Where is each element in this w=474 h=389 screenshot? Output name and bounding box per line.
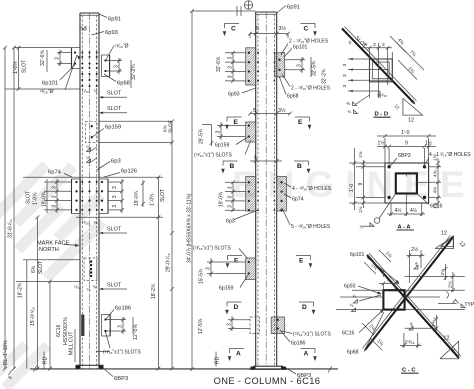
dimension 19'-0 3/4 right rotated bbox=[142, 180, 144, 207]
svg-text:3¹¹⁄₁₆: 3¹¹⁄₁₆ bbox=[377, 93, 387, 99]
dimension 32'-2 3/4 rotated right bbox=[130, 60, 132, 88]
svg-text:C: C bbox=[231, 26, 236, 33]
dimension 3 at 6p186 bbox=[106, 319, 126, 321]
svg-text:⅜: ⅜ bbox=[8, 375, 12, 380]
svg-text:6p186: 6p186 bbox=[115, 306, 131, 312]
weld symbol at column top bbox=[82, 27, 86, 31]
svg-text:3: 3 bbox=[228, 205, 234, 208]
svg-text:(¹³⁄₁₆"x1") SLOTS: (¹³⁄₁₆"x1") SLOTS bbox=[193, 246, 231, 252]
svg-text:4⅝: 4⅝ bbox=[433, 186, 439, 194]
label 6p3 column 2 bbox=[234, 210, 258, 220]
svg-text:6p3: 6p3 bbox=[226, 219, 235, 225]
base plate column 1 bbox=[76, 365, 81, 368]
label 6BP3 left with leader bbox=[103, 368, 113, 377]
label 6p186 with leader bbox=[106, 310, 115, 320]
label 4-1 3/16 holes detail A-A bbox=[424, 158, 430, 166]
svg-text:19'-0¾: 19'-0¾ bbox=[42, 191, 48, 207]
svg-text:3: 3 bbox=[118, 325, 124, 328]
label 6p3 with leader bbox=[97, 162, 110, 171]
svg-text:TYP: TYP bbox=[465, 302, 474, 308]
svg-text:6p186: 6p186 bbox=[291, 341, 306, 347]
detail C-C extension lines left bbox=[352, 289, 383, 291]
svg-text:9: 9 bbox=[358, 183, 364, 186]
plate right at C level hatched bbox=[275, 53, 285, 77]
slots note D level col2 bbox=[282, 331, 292, 334]
detail D-D slope triangle bbox=[403, 98, 423, 115]
detail D-D inner square bbox=[373, 62, 390, 79]
label 6BP3 col2 with leader bbox=[286, 368, 296, 374]
svg-text:⅛: ⅛ bbox=[87, 287, 91, 292]
svg-text:SLOT: SLOT bbox=[160, 189, 166, 202]
svg-text:12: 12 bbox=[451, 347, 456, 353]
hidden plate lower E level bbox=[84, 258, 97, 281]
svg-text:6p68: 6p68 bbox=[287, 94, 299, 100]
dimensions left of B plate col2 bbox=[225, 181, 246, 183]
label 6p74 with leader bbox=[64, 174, 72, 178]
dimension 32'-5 3/4 rotated right bbox=[310, 57, 312, 77]
dim 2 1/8 right vertical 2 bbox=[452, 272, 454, 292]
svg-text:(¹³⁄₁₆"x1") SLOTS: (¹³⁄₁₆"x1") SLOTS bbox=[194, 153, 232, 159]
svg-text:SLOT: SLOT bbox=[38, 261, 44, 274]
plate 6p159 hidden bbox=[86, 121, 98, 142]
label 5-13/16 holes below B bbox=[282, 208, 290, 225]
svg-text:3: 3 bbox=[52, 186, 58, 189]
svg-text:SLOT: SLOT bbox=[107, 283, 122, 289]
detail D-D top dim line bbox=[362, 47, 392, 49]
flange dots col2 C level bbox=[274, 52, 276, 54]
svg-text:12'-5⅝: 12'-5⅝ bbox=[133, 324, 139, 340]
top left extension lines bbox=[14, 47, 72, 49]
svg-text:RD: RD bbox=[215, 356, 221, 364]
plate 6p101 left of column bbox=[72, 48, 81, 69]
svg-text:⅛: ⅛ bbox=[93, 285, 97, 290]
detail C-C dim 5 top bbox=[382, 284, 384, 291]
column 6C16 hidden flange lines bbox=[81, 15, 83, 369]
svg-text:¹¹⁄₁₆: ¹¹⁄₁₆ bbox=[74, 285, 81, 290]
svg-text:E: E bbox=[234, 258, 239, 265]
plate 6p186 right side bbox=[102, 315, 111, 337]
hidden marks D level bbox=[81, 315, 84, 337]
svg-text:6p74: 6p74 bbox=[48, 170, 62, 176]
svg-text:6p91: 6p91 bbox=[108, 17, 121, 23]
svg-text:29'-0¹¹⁄₁₆: 29'-0¹¹⁄₁₆ bbox=[166, 253, 172, 272]
svg-text:6p93: 6p93 bbox=[105, 30, 118, 36]
svg-text:32'-6⅝: 32'-6⅝ bbox=[40, 50, 46, 66]
svg-text:3: 3 bbox=[216, 131, 222, 134]
svg-text:D: D bbox=[302, 304, 307, 311]
svg-text:5: 5 bbox=[253, 108, 256, 114]
dimensions left of C plate bbox=[225, 52, 246, 54]
svg-text:4 - ¹³⁄₁₆"Ø HOLES: 4 - ¹³⁄₁₆"Ø HOLES bbox=[292, 186, 332, 192]
label 13/16 dia hole left bbox=[65, 55, 77, 90]
label 6p68 with leader bbox=[104, 74, 116, 82]
column 2 hidden lines bbox=[257, 14, 259, 367]
detail A-A top dimension 1'-0 bbox=[384, 138, 386, 163]
plate right at B level hatched bbox=[277, 177, 287, 212]
svg-text:¼: ¼ bbox=[360, 224, 364, 229]
label 6p159 with leader bbox=[92, 129, 104, 138]
svg-text:6p3: 6p3 bbox=[111, 159, 121, 165]
svg-text:¹¹⁄₁₆: ¹¹⁄₁₆ bbox=[82, 89, 89, 94]
label 6p159 E lower bbox=[240, 274, 249, 288]
svg-text:32'-5¾: 32'-5¾ bbox=[312, 60, 318, 76]
svg-text:6BP3: 6BP3 bbox=[114, 376, 128, 382]
dim 2 13/16 bottom bbox=[403, 333, 405, 348]
svg-text:6p68: 6p68 bbox=[117, 81, 130, 87]
slot line 2 bbox=[99, 112, 127, 114]
label 6C16 detail A-A bbox=[417, 194, 429, 205]
svg-text:C: C bbox=[304, 26, 309, 33]
svg-text:4⅝: 4⅝ bbox=[433, 169, 439, 177]
label 6p91 column 2 bbox=[277, 6, 286, 14]
vertical dimension line between columns x172 bbox=[171, 121, 173, 368]
baseline end tick bbox=[33, 366, 37, 372]
svg-text:¼: ¼ bbox=[353, 294, 357, 299]
svg-text:6BP3: 6BP3 bbox=[398, 153, 411, 159]
plate 6p68 right of column bbox=[102, 55, 110, 77]
detail C-C brace from top right bbox=[365, 237, 453, 350]
plate 6p126 right side bbox=[99, 179, 108, 214]
detail A-A bottom dimension 4.5 4.5 bbox=[390, 203, 392, 216]
svg-text:5: 5 bbox=[256, 26, 259, 32]
svg-text:32'-2¾: 32'-2¾ bbox=[131, 64, 137, 80]
detail D-D diagonal dim 1 1/8 bbox=[398, 60, 417, 80]
detail D-D diagonal dim 7 3/4 bbox=[396, 42, 424, 70]
svg-text:1½: 1½ bbox=[378, 140, 386, 147]
baseline ground line bbox=[30, 368, 338, 370]
svg-text:2½: 2½ bbox=[411, 246, 419, 253]
dimension 3 left of plate 6p101 bbox=[57, 52, 71, 54]
svg-text:(¹³⁄₁₆"x1") SLOTS: (¹³⁄₁₆"x1") SLOTS bbox=[293, 332, 331, 338]
svg-text:⅛: ⅛ bbox=[94, 89, 98, 94]
svg-text:3: 3 bbox=[382, 42, 385, 48]
slots note E level bbox=[245, 140, 251, 155]
svg-text:12'-5⅝: 12'-5⅝ bbox=[198, 318, 204, 334]
svg-text:1½: 1½ bbox=[425, 140, 433, 147]
svg-text:⅛: ⅛ bbox=[79, 25, 83, 30]
svg-text:¼: ¼ bbox=[347, 109, 351, 114]
svg-text:1'-0: 1'-0 bbox=[349, 184, 355, 192]
svg-text:15'-5¾: 15'-5¾ bbox=[199, 268, 205, 284]
detail D-D weld symbols bottom left bbox=[353, 102, 357, 106]
dimension 3 right of plate 6p68 bbox=[106, 60, 122, 62]
vertical dimension line between columns x158 bbox=[157, 177, 159, 368]
detail A-A weld symbol with circle bbox=[374, 218, 380, 224]
svg-text:ONE - COLUMN - 6C16: ONE - COLUMN - 6C16 bbox=[214, 376, 321, 386]
svg-text:¹¹⁄₁₆: ¹¹⁄₁₆ bbox=[82, 220, 89, 225]
svg-text:3: 3 bbox=[52, 195, 58, 198]
detail A-A slope triangle bbox=[435, 236, 453, 248]
svg-text:NORTH: NORTH bbox=[39, 247, 59, 253]
detail C-C slope triangle bottom bbox=[440, 341, 459, 359]
svg-text:1'-0⅝: 1'-0⅝ bbox=[13, 61, 19, 74]
labels 2-13/16 holes lower and 6p68 bbox=[282, 74, 290, 87]
column 6C16 middle elevation body bbox=[255, 12, 257, 367]
dimension 12'-5 5/8 rotated bbox=[132, 317, 134, 334]
svg-text:6C16: 6C16 bbox=[56, 324, 62, 337]
svg-text:6p93: 6p93 bbox=[344, 284, 356, 290]
dimension lines right of B connection bbox=[108, 181, 122, 183]
svg-text:4½: 4½ bbox=[410, 207, 418, 214]
svg-text:6p159: 6p159 bbox=[105, 125, 121, 131]
svg-text:4 - 1 ³⁄₁₆"Ø HOLES: 4 - 1 ³⁄₁₆"Ø HOLES bbox=[429, 152, 471, 158]
svg-text:1⅝: 1⅝ bbox=[358, 206, 363, 213]
svg-text:B: B bbox=[230, 163, 235, 170]
plate left at D level bbox=[250, 317, 259, 334]
svg-text:12: 12 bbox=[444, 336, 450, 342]
svg-text:3: 3 bbox=[228, 196, 234, 199]
svg-text:3: 3 bbox=[228, 66, 234, 69]
svg-text:6C16: 6C16 bbox=[342, 331, 355, 337]
svg-text:3½: 3½ bbox=[278, 107, 286, 114]
svg-text:6p101: 6p101 bbox=[350, 252, 365, 258]
svg-text:3: 3 bbox=[297, 64, 303, 67]
svg-text:1⅝: 1⅝ bbox=[358, 151, 363, 158]
plate left at B level hatched bbox=[246, 177, 256, 212]
svg-text:A: A bbox=[236, 351, 241, 358]
svg-text:SLOT: SLOT bbox=[107, 91, 122, 97]
svg-text:6C16: 6C16 bbox=[430, 204, 443, 210]
detail D-D outer square bbox=[370, 59, 393, 82]
dimension line 18'-2 3/4 left bbox=[37, 217, 39, 368]
svg-text:E: E bbox=[298, 119, 303, 126]
svg-text:3: 3 bbox=[114, 65, 120, 68]
svg-text:SLOT: SLOT bbox=[107, 227, 122, 233]
svg-text:⅛: ⅛ bbox=[94, 220, 98, 225]
dimension 1'-0 5/8 slot top left bbox=[18, 48, 20, 89]
label 6p91 with leader bbox=[99, 14, 107, 18]
svg-text:29'-5¾: 29'-5¾ bbox=[199, 128, 205, 144]
svg-text:D - D: D - D bbox=[375, 112, 389, 118]
detail D-D diagonal dim 4 5/8 bbox=[390, 36, 406, 53]
svg-text:SLOT: SLOT bbox=[107, 106, 122, 112]
svg-text:3: 3 bbox=[52, 205, 58, 208]
svg-text:12: 12 bbox=[441, 231, 447, 237]
svg-text:3: 3 bbox=[206, 267, 212, 270]
label 6BP3 detail A-A bbox=[391, 158, 397, 166]
svg-text:¹³⁄₁₆"Ø: ¹³⁄₁₆"Ø bbox=[40, 89, 54, 95]
label 6p159 E level bbox=[236, 137, 249, 145]
detail D-D grid horizontals bbox=[348, 58, 392, 60]
svg-text:A: A bbox=[304, 351, 309, 358]
dimension line 15'-0 15/16 left bbox=[49, 282, 51, 369]
svg-text:19'-0¾: 19'-0¾ bbox=[134, 190, 140, 206]
detail A-A outer plate square bbox=[385, 163, 429, 203]
svg-text:B: B bbox=[297, 163, 302, 170]
svg-text:3: 3 bbox=[112, 195, 118, 198]
connection bottom line bbox=[76, 216, 163, 218]
detail A-A left dimensions bbox=[349, 162, 385, 164]
svg-text:1'-0⅝: 1'-0⅝ bbox=[150, 193, 156, 206]
dimension 3 D level col2 bbox=[228, 319, 250, 321]
svg-text:SLOT: SLOT bbox=[26, 191, 32, 204]
svg-text:2 - ¹³⁄₁₆"Ø HOLES: 2 - ¹³⁄₁₆"Ø HOLES bbox=[291, 86, 331, 92]
svg-text:15'-0¹⁵⁄₁₆: 15'-0¹⁵⁄₁₆ bbox=[30, 307, 36, 326]
svg-text:1'-0⅝: 1'-0⅝ bbox=[33, 192, 39, 205]
svg-text:3: 3 bbox=[228, 57, 234, 60]
slot line lower bbox=[99, 288, 127, 290]
svg-text:4½: 4½ bbox=[395, 207, 403, 214]
plate left at C level hatched bbox=[246, 48, 256, 85]
labels right of C plate bbox=[281, 44, 288, 56]
svg-text:3: 3 bbox=[342, 85, 348, 88]
svg-text:3: 3 bbox=[55, 57, 61, 60]
slot line below B bbox=[99, 232, 127, 234]
svg-text:3½: 3½ bbox=[279, 25, 287, 32]
svg-text:12: 12 bbox=[408, 118, 414, 124]
svg-text:2⅛: 2⅛ bbox=[448, 280, 454, 288]
label 6p93 with leader bbox=[92, 32, 105, 36]
svg-text:31'-6¹¹⁄₁₆: 31'-6¹¹⁄₁₆ bbox=[8, 219, 14, 238]
svg-text:SLOT: SLOT bbox=[168, 120, 174, 133]
svg-text:E: E bbox=[299, 258, 304, 265]
svg-text:18'-2¾: 18'-2¾ bbox=[18, 282, 24, 298]
svg-text:MILL CUT: MILL CUT bbox=[69, 331, 75, 355]
svg-text:19'-0¾: 19'-0¾ bbox=[219, 191, 225, 207]
svg-text:6⅝: 6⅝ bbox=[31, 265, 37, 273]
bolts of B connection bbox=[75, 181, 77, 183]
dimension line 31'-6 11/16 bbox=[13, 48, 15, 369]
svg-text:34'-0⅞ (HSS6X6X⅜ x 33'-11⅝): 34'-0⅞ (HSS6X6X⅜ x 33'-11⅝) bbox=[187, 193, 193, 263]
svg-text:¹³⁄₁₆"Ø: ¹³⁄₁₆"Ø bbox=[115, 44, 129, 50]
plate left at E lower level bbox=[246, 258, 256, 280]
detail C-C extension lines right bbox=[405, 275, 465, 277]
svg-text:3: 3 bbox=[227, 323, 233, 326]
svg-text:5 - ¹³⁄₁₆"Ø HOLES: 5 - ¹³⁄₁₆"Ø HOLES bbox=[291, 224, 331, 230]
hole label 13/16 dia right bbox=[106, 46, 115, 61]
svg-text:6p159: 6p159 bbox=[219, 286, 234, 292]
svg-text:9: 9 bbox=[405, 141, 408, 147]
svg-text:C - C: C - C bbox=[402, 368, 416, 374]
svg-text:2¹¹⁄₁₆: 2¹¹⁄₁₆ bbox=[431, 317, 437, 327]
dimension 3 E lower bbox=[207, 261, 246, 263]
svg-text:⅜: ⅜ bbox=[364, 42, 368, 47]
svg-text:18'-2¾: 18'-2¾ bbox=[151, 283, 157, 299]
slots note bottom left column bbox=[106, 332, 111, 348]
dimension lines left of B connection bbox=[44, 181, 71, 183]
svg-text:⅜: ⅜ bbox=[346, 101, 350, 106]
label 6p101 with leader arrow bbox=[60, 65, 75, 81]
column 6C16 left elevation body bbox=[79, 13, 81, 369]
svg-text:1'-0: 1'-0 bbox=[401, 130, 410, 136]
detail A-A top dimension 1.5 9 1.5 bbox=[388, 148, 390, 167]
detail C-C tube square bbox=[383, 290, 404, 309]
dimension 3 at E level bbox=[217, 125, 246, 127]
dimension 6 5/8 slot rotated lower bbox=[26, 260, 28, 369]
detail D-D brace diagonal bbox=[342, 29, 414, 104]
svg-text:3: 3 bbox=[373, 42, 376, 48]
column 6C16 centerline bbox=[89, 13, 91, 369]
svg-text:3: 3 bbox=[342, 64, 348, 67]
svg-text:MARK FACE: MARK FACE bbox=[37, 241, 70, 247]
label 6p186 col2 bbox=[280, 330, 290, 342]
detail C-C slope triangle top right bbox=[441, 236, 454, 247]
far left dimension line EL bbox=[4, 48, 6, 369]
column bolts upper zone bbox=[81, 52, 83, 54]
svg-text:6p126: 6p126 bbox=[121, 169, 137, 175]
detail A-A corner holes bbox=[387, 165, 390, 168]
svg-text:2⅛: 2⅛ bbox=[440, 268, 446, 276]
svg-text:(¹³⁄₁₆"x1") SLOTS: (¹³⁄₁₆"x1") SLOTS bbox=[103, 350, 141, 356]
connection top line bbox=[23, 176, 163, 178]
svg-text:6p159: 6p159 bbox=[215, 143, 230, 149]
plate right at D level bbox=[271, 317, 284, 334]
plate 6p74 left side bbox=[72, 179, 81, 214]
svg-text:E: E bbox=[234, 119, 239, 126]
svg-text:32'-6⅝: 32'-6⅝ bbox=[216, 56, 222, 72]
svg-text:32'-2¾: 32'-2¾ bbox=[322, 68, 328, 84]
flange dots col2 B level bbox=[257, 181, 259, 183]
label 6p74 B level bbox=[284, 194, 291, 198]
dim 2 1/8 right vertical bbox=[445, 264, 447, 280]
svg-text:¼: ¼ bbox=[350, 303, 354, 308]
svg-text:6p74: 6p74 bbox=[292, 197, 304, 203]
watermark logo lower piece bbox=[0, 330, 51, 389]
svg-text:3: 3 bbox=[228, 75, 234, 78]
svg-text:3: 3 bbox=[228, 186, 234, 189]
svg-text:RD: RD bbox=[43, 356, 49, 364]
baseline tick right bbox=[328, 366, 332, 372]
dimension 3 right C level bbox=[285, 59, 305, 61]
detail A-A inner tube square bbox=[396, 173, 417, 193]
plate left at E level bbox=[246, 122, 256, 142]
svg-text:6p68: 6p68 bbox=[347, 350, 359, 356]
svg-text:3: 3 bbox=[112, 186, 118, 189]
svg-text:SLOT: SLOT bbox=[22, 60, 28, 73]
detail C-C brace to bottom right bbox=[367, 255, 459, 358]
svg-text:2¹³⁄₁₆: 2¹³⁄₁₆ bbox=[405, 340, 415, 346]
curve mark right bbox=[447, 292, 449, 299]
svg-text:6p93: 6p93 bbox=[228, 92, 240, 98]
svg-text:5: 5 bbox=[387, 278, 390, 284]
weld typ right bbox=[438, 303, 457, 305]
svg-text:3: 3 bbox=[342, 74, 348, 77]
svg-text:6p101: 6p101 bbox=[42, 81, 58, 87]
label 6p93 column 2 bbox=[242, 88, 256, 93]
svg-text:6p101: 6p101 bbox=[293, 45, 308, 51]
base plate 6BP3 column 2 bbox=[251, 366, 287, 369]
svg-text:3: 3 bbox=[112, 205, 118, 208]
detail A-A right dimensions bbox=[429, 166, 441, 168]
detail D-D grid verticals bbox=[369, 48, 371, 98]
dimension 19'-0 3/4 left rotated bbox=[46, 179, 48, 213]
bolt ticks on column 2 flange C level bbox=[257, 52, 259, 54]
column 2 centerline bbox=[265, 12, 267, 367]
vertical dim 34'-0 7/8 line bbox=[191, 11, 193, 369]
label 4-13/16 holes B level bbox=[284, 183, 291, 187]
watermark logo bbox=[0, 148, 119, 282]
label 6p126 with leader bbox=[104, 173, 120, 178]
dim 2 11/16 lower right bbox=[435, 315, 437, 332]
grid reference circle and ticks bbox=[192, 10, 256, 12]
svg-text:D: D bbox=[234, 304, 239, 311]
svg-text:6p91: 6p91 bbox=[287, 5, 300, 11]
svg-text:EL.-1'-10⅝: EL.-1'-10⅝ bbox=[3, 340, 9, 365]
slot line 1 bbox=[99, 96, 127, 98]
